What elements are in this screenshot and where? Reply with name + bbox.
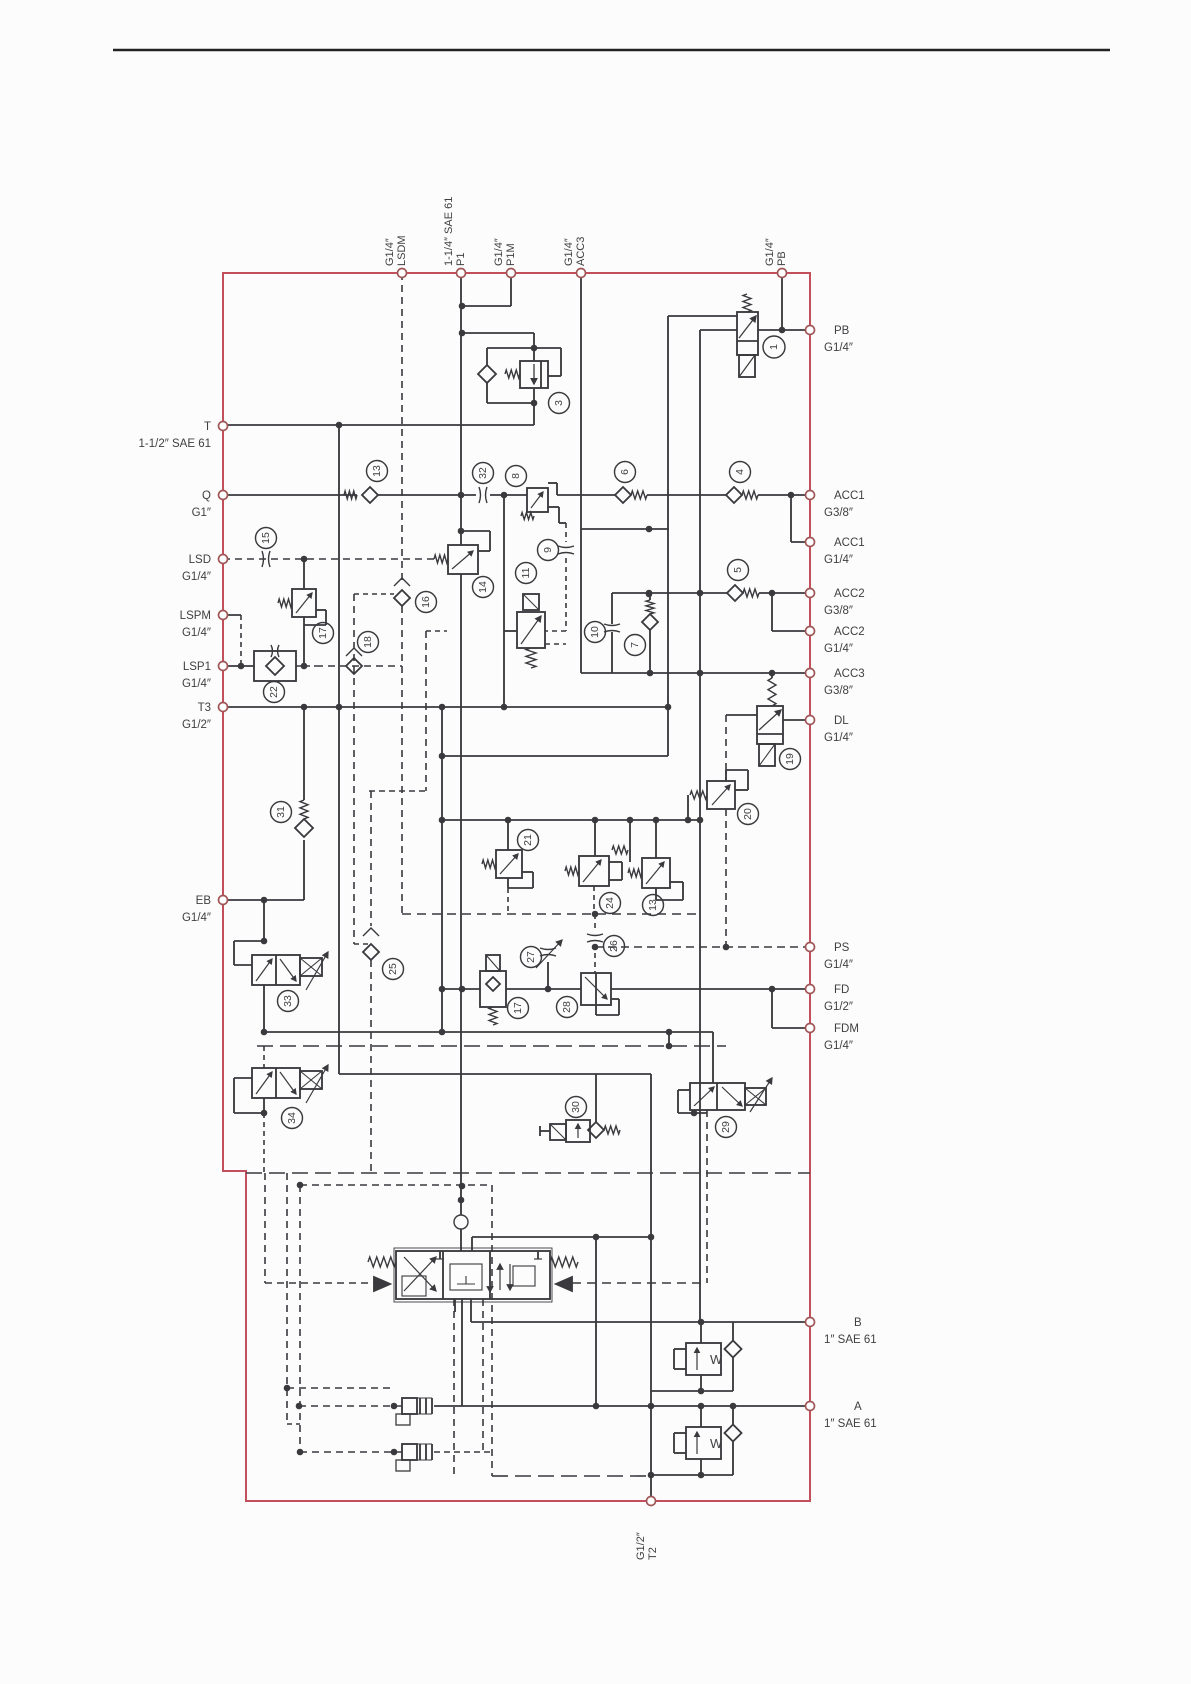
svg-text:ACC1: ACC1 (834, 490, 865, 502)
svg-text:PB: PB (834, 325, 850, 337)
svg-text:G1/4″: G1/4″ (824, 342, 853, 354)
svg-text:W: W (710, 1436, 723, 1451)
svg-text:7: 7 (629, 642, 641, 648)
svg-text:1″ SAE 61: 1″ SAE 61 (824, 1418, 877, 1430)
svg-text:A: A (854, 1401, 862, 1413)
svg-text:G1/2″: G1/2″ (824, 1001, 853, 1013)
svg-text:T2: T2 (647, 1547, 659, 1560)
svg-text:6: 6 (619, 469, 631, 475)
svg-text:8: 8 (510, 473, 522, 479)
svg-text:1-1/4″ SAE 61: 1-1/4″ SAE 61 (443, 197, 455, 266)
svg-text:G1/2″: G1/2″ (182, 719, 211, 731)
svg-text:G3/8″: G3/8″ (824, 685, 853, 697)
svg-text:33: 33 (282, 995, 294, 1007)
svg-text:PS: PS (834, 942, 850, 954)
svg-text:11: 11 (520, 567, 532, 578)
svg-text:ACC2: ACC2 (834, 588, 865, 600)
svg-text:9: 9 (542, 547, 554, 553)
svg-text:17: 17 (512, 1002, 524, 1014)
svg-text:ACC3: ACC3 (834, 668, 865, 680)
svg-text:15: 15 (260, 532, 272, 544)
svg-text:14: 14 (477, 581, 489, 593)
svg-text:P1M: P1M (505, 243, 517, 266)
svg-text:G1/4″: G1/4″ (493, 238, 505, 266)
svg-text:19: 19 (784, 753, 796, 765)
svg-text:LSDM: LSDM (396, 235, 408, 266)
svg-text:28: 28 (561, 1001, 573, 1013)
svg-text:LSD: LSD (189, 554, 211, 566)
svg-text:EB: EB (196, 895, 212, 907)
svg-text:22: 22 (268, 686, 280, 698)
svg-text:G1/4″: G1/4″ (824, 732, 853, 744)
svg-text:P1: P1 (455, 253, 467, 266)
svg-text:17: 17 (317, 627, 329, 639)
svg-text:DL: DL (834, 715, 849, 727)
svg-text:G1/4″: G1/4″ (182, 627, 211, 639)
svg-text:24: 24 (604, 897, 616, 909)
svg-text:T3: T3 (198, 702, 211, 714)
svg-text:10: 10 (589, 626, 601, 638)
svg-text:G1/4″: G1/4″ (182, 571, 211, 583)
svg-text:LSPM: LSPM (180, 610, 211, 622)
svg-text:21: 21 (522, 834, 534, 846)
svg-text:18: 18 (362, 636, 374, 648)
svg-text:G1/4″: G1/4″ (824, 959, 853, 971)
svg-text:W: W (710, 1352, 723, 1367)
svg-text:B: B (854, 1317, 862, 1329)
svg-text:G1/4″: G1/4″ (824, 554, 853, 566)
svg-text:ACC3: ACC3 (575, 237, 587, 266)
svg-text:T: T (204, 421, 211, 433)
svg-text:3: 3 (553, 400, 565, 406)
svg-text:FDM: FDM (834, 1023, 859, 1035)
svg-text:G1/2″: G1/2″ (635, 1532, 647, 1560)
svg-text:29: 29 (720, 1121, 732, 1133)
svg-text:LSP1: LSP1 (183, 661, 211, 673)
svg-text:G3/8″: G3/8″ (824, 507, 853, 519)
svg-text:4: 4 (734, 469, 746, 475)
svg-text:G1/4″: G1/4″ (182, 912, 211, 924)
svg-text:G1″: G1″ (192, 507, 211, 519)
svg-text:34: 34 (286, 1112, 298, 1124)
svg-text:16: 16 (420, 596, 432, 608)
svg-text:G3/8″: G3/8″ (824, 605, 853, 617)
svg-text:FD: FD (834, 984, 849, 996)
svg-text:32: 32 (477, 467, 489, 479)
svg-text:31: 31 (275, 806, 287, 818)
svg-text:1″ SAE 61: 1″ SAE 61 (824, 1334, 877, 1346)
svg-text:ACC2: ACC2 (834, 626, 865, 638)
svg-text:G1/4″: G1/4″ (182, 678, 211, 690)
svg-text:G1/4″: G1/4″ (764, 238, 776, 266)
svg-text:13: 13 (647, 899, 659, 911)
svg-text:ACC1: ACC1 (834, 537, 865, 549)
svg-text:G1/4″: G1/4″ (384, 238, 396, 266)
svg-text:5: 5 (732, 567, 744, 573)
svg-text:1: 1 (768, 344, 780, 350)
svg-text:G1/4″: G1/4″ (824, 1040, 853, 1052)
svg-text:26: 26 (608, 940, 620, 952)
svg-text:PB: PB (776, 251, 788, 266)
svg-text:27: 27 (525, 951, 537, 963)
svg-text:G1/4″: G1/4″ (824, 643, 853, 655)
svg-text:20: 20 (742, 808, 754, 820)
svg-text:Q: Q (202, 490, 211, 502)
svg-text:1-1/2″ SAE 61: 1-1/2″ SAE 61 (139, 438, 211, 450)
svg-text:13: 13 (371, 465, 383, 477)
svg-text:30: 30 (570, 1101, 582, 1113)
svg-text:G1/4″: G1/4″ (563, 238, 575, 266)
svg-text:25: 25 (387, 963, 399, 975)
